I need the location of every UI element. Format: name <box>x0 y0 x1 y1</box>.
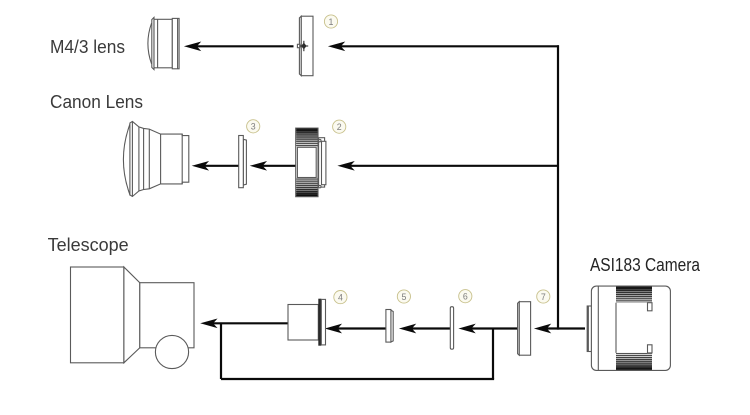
svg-text:5: 5 <box>401 292 406 302</box>
svg-text:4: 4 <box>338 293 343 303</box>
svg-text:3: 3 <box>251 122 256 132</box>
svg-text:ASI183 Camera: ASI183 Camera <box>590 254 701 275</box>
svg-text:1: 1 <box>329 17 334 27</box>
svg-text:M4/3 lens: M4/3 lens <box>50 36 125 57</box>
svg-text:Telescope: Telescope <box>48 234 129 255</box>
svg-text:7: 7 <box>541 292 546 302</box>
svg-text:Canon Lens: Canon Lens <box>50 91 143 112</box>
svg-text:2: 2 <box>337 122 342 132</box>
svg-text:6: 6 <box>463 292 468 302</box>
